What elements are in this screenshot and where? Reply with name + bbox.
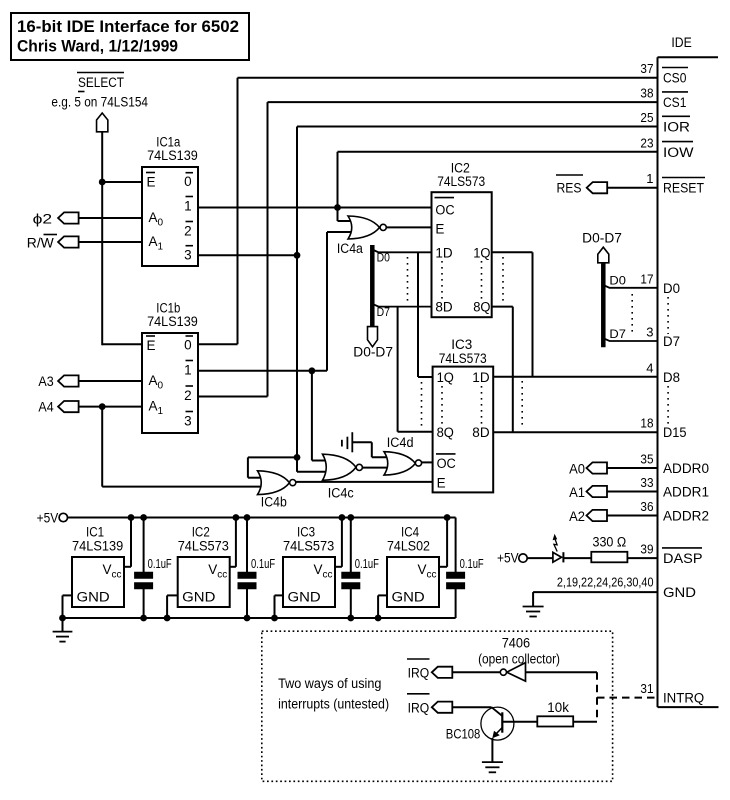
svg-text:D0-D7: D0-D7 (582, 231, 622, 246)
svg-text:16-bit IDE Interface for 6502: 16-bit IDE Interface for 6502 (17, 17, 239, 36)
bus entry D0 right (603, 285, 657, 288)
dotted bus hint IC3 left (421, 382, 423, 427)
svg-text:D0: D0 (663, 281, 680, 296)
power IC4 GND wire (378, 594, 387, 596)
svg-text:SELECT: SELECT (78, 75, 124, 90)
nor gate IC4d (384, 452, 415, 475)
input R/W tag (58, 236, 79, 247)
svg-text:74LS139: 74LS139 (147, 314, 198, 329)
wire branch to IC1a E (102, 181, 142, 183)
svg-text:Two ways of using: Two ways of using (278, 676, 381, 691)
inverter U2 7406 (507, 663, 526, 682)
svg-text:GND: GND (663, 585, 696, 600)
power IC3 GND wire (275, 594, 284, 596)
svg-text:(open collector): (open collector) (478, 651, 560, 666)
wire IC1b-2 to CS1 (198, 396, 268, 398)
svg-text:+5V: +5V (497, 551, 519, 566)
input RES tag (587, 182, 608, 193)
svg-text:0.1uF: 0.1uF (148, 557, 172, 571)
svg-text:1Q: 1Q (437, 370, 454, 385)
svg-text:IC3: IC3 (297, 525, 315, 540)
svg-text:IDE: IDE (671, 35, 691, 50)
power ground rail (63, 617, 456, 619)
svg-text:IRQ: IRQ (408, 700, 430, 715)
bus arrow D0-D7 (up) (598, 247, 609, 263)
svg-text:IC1: IC1 (86, 525, 104, 540)
ground (BC108) (482, 761, 503, 763)
power IC2 box (178, 557, 230, 607)
svg-text:330 Ω: 330 Ω (593, 535, 627, 550)
IC1b box (142, 333, 198, 433)
wire A4 to IC1b A1 (79, 406, 142, 408)
svg-text:IC2: IC2 (192, 525, 210, 540)
IC4a output bubble (380, 224, 386, 230)
LED D1 (553, 552, 562, 562)
svg-text:OC: OC (435, 203, 454, 218)
svg-text:4: 4 (646, 360, 653, 375)
svg-text:IC4c: IC4c (328, 486, 354, 501)
svg-text:74LS573: 74LS573 (439, 351, 487, 366)
power IC1 GND wire (63, 594, 73, 596)
svg-text:E: E (437, 475, 446, 490)
svg-text:D7: D7 (377, 305, 391, 319)
junction A4 branch (99, 403, 106, 410)
svg-text:1D: 1D (435, 245, 453, 260)
svg-text:0.1uF: 0.1uF (460, 557, 484, 571)
svg-text:A4: A4 (38, 400, 54, 415)
svg-text:D0: D0 (377, 251, 391, 265)
IC3 box (433, 367, 494, 493)
svg-text:1D: 1D (472, 370, 490, 385)
dotted bus hint IC2 inside Q (481, 261, 483, 299)
svg-text:0: 0 (184, 174, 192, 189)
wire IC1b-1 up to IC4a bottom input (326, 232, 328, 371)
bus D0-D7 (right) (601, 263, 606, 347)
svg-text:D15: D15 (663, 425, 687, 440)
power IC4 Vcc wire (439, 566, 447, 568)
power IC3 Vcc wire (335, 566, 342, 568)
dotted bus hint right bus (631, 294, 633, 336)
capacitor 0.1uF at IC3 (350, 518, 352, 573)
svg-text:R/W: R/W (27, 236, 54, 251)
wire dashed to INTRQ (596, 672, 598, 722)
IC4b output bubble (290, 480, 296, 486)
svg-text:33: 33 (640, 475, 653, 490)
wire IOW horizontal to connector (338, 151, 658, 153)
svg-text:74LS573: 74LS573 (178, 539, 229, 554)
svg-text:OC: OC (437, 456, 456, 471)
svg-text:74LS139: 74LS139 (147, 148, 198, 163)
svg-text:interrupts (untested): interrupts (untested) (278, 697, 389, 712)
dotted bus hint IC2 right (502, 257, 504, 303)
svg-text:0.1uF: 0.1uF (355, 557, 379, 571)
svg-text:GND: GND (77, 590, 110, 605)
ground (rotated) at IC4d input (341, 440, 343, 447)
wire IC4b out to IC3 E (296, 481, 433, 483)
IC4d output bubble (415, 460, 421, 466)
junction IC1a-3/IOR (294, 252, 301, 259)
wire A2 to ADDR (607, 515, 658, 517)
svg-text:DASP: DASP (663, 551, 703, 566)
svg-text:GND: GND (392, 590, 425, 605)
wire A1 to ADDR (607, 491, 658, 493)
svg-text:1: 1 (184, 199, 192, 214)
svg-text:IRQ: IRQ (408, 666, 430, 681)
svg-text:74LS573: 74LS573 (283, 539, 334, 554)
svg-text:0.1uF: 0.1uF (251, 557, 275, 571)
LED arrow (554, 540, 557, 552)
wire IC4a out to IC2 E (387, 226, 432, 228)
resistor R1 330 ohm (591, 552, 627, 563)
wire A3 to IC1b A0 (79, 380, 142, 382)
svg-text:IC3: IC3 (451, 337, 472, 352)
power IC2 Vcc wire (230, 566, 236, 568)
wire IC3 1Q to D0 line (418, 376, 433, 378)
svg-text:E: E (147, 338, 156, 353)
svg-text:18: 18 (640, 416, 653, 431)
wire IC3 8Q to D7 line (398, 431, 433, 433)
svg-text:Chris Ward, 1/12/1999: Chris Ward, 1/12/1999 (17, 37, 178, 56)
interrupt note box (dashed) (262, 631, 613, 781)
svg-text:37: 37 (640, 61, 653, 76)
wire to IC4a top input (338, 220, 354, 222)
svg-text:e.g. 5 on 74LS154: e.g. 5 on 74LS154 (51, 95, 148, 110)
power IC1 Vcc wire (124, 566, 131, 568)
svg-text:8D: 8D (435, 300, 453, 315)
svg-text:CS0: CS0 (663, 71, 686, 86)
svg-text:ADDR0: ADDR0 (663, 461, 709, 476)
wire IC1b-0 to CS0 (198, 343, 238, 345)
junction IOW/IC1a-1 (334, 204, 341, 211)
power IC2 GND wire (167, 594, 178, 596)
wire A0 to ADDR (607, 467, 658, 469)
title box (11, 13, 249, 60)
svg-text:A1: A1 (569, 485, 585, 500)
connector arrow SELECT (up) (97, 113, 108, 132)
svg-text:D0-D7: D0-D7 (353, 345, 393, 360)
junction SELECT/IC1a-E (99, 179, 106, 186)
svg-text:1Q: 1Q (473, 245, 490, 260)
svg-text:2,19,22,24,26,30,40: 2,19,22,24,26,30,40 (557, 575, 654, 590)
svg-text:10k: 10k (547, 700, 569, 715)
input A3 tag (58, 375, 79, 386)
svg-text:IC4: IC4 (401, 525, 420, 540)
svg-text:BC108: BC108 (446, 727, 481, 742)
power IC3 box (283, 557, 335, 607)
wire A4 down to IC4b input (101, 407, 103, 487)
ground (power rail) (62, 618, 64, 632)
svg-text:1: 1 (184, 363, 192, 378)
wire phi2 to IC1a A0 (79, 217, 142, 219)
svg-text:A3: A3 (38, 374, 53, 389)
wire R/W to IC1a A1 (79, 241, 142, 243)
svg-text:GND: GND (182, 590, 215, 605)
wire ground to IC4d top input (352, 441, 372, 443)
transistor Q1 BC108 (481, 707, 514, 740)
svg-text:39: 39 (640, 542, 653, 557)
svg-text:IOW: IOW (663, 145, 694, 160)
wire collector to resistor (502, 721, 537, 723)
svg-text:35: 35 (640, 452, 653, 467)
svg-text:D7: D7 (609, 327, 626, 341)
svg-text:36: 36 (640, 499, 653, 514)
svg-text:IC4b: IC4b (261, 495, 287, 510)
svg-text:IC4a: IC4a (337, 241, 363, 256)
wire D15 IC3 8D to connector (493, 431, 657, 433)
wire IOW vertical (337, 152, 339, 221)
wire IC4d out to IC3 OC (422, 461, 433, 463)
wire IOR vertical (296, 127, 298, 458)
power IC1 box (72, 557, 124, 607)
wire resistor to dashed node (573, 721, 597, 723)
wire IC4c out to IC4d input (363, 467, 389, 469)
wire LED to resistor (563, 557, 591, 559)
dotted bus hint IC3 inside Q (441, 386, 443, 426)
dotted bus hint IC3 inside D (481, 386, 483, 426)
svg-text:0: 0 (184, 337, 192, 352)
resistor R2 10k (537, 716, 573, 726)
svg-text:A2: A2 (569, 509, 585, 524)
wire +5V to LED (527, 557, 553, 559)
svg-text:RESET: RESET (663, 181, 704, 196)
capacitor 0.1uF at IC2 (246, 518, 248, 573)
wire resistor to DASP (627, 557, 657, 559)
IC2 box (432, 192, 492, 317)
svg-text:2: 2 (184, 223, 192, 238)
output IRQ tag (top) (432, 667, 453, 678)
svg-text:1: 1 (646, 171, 653, 186)
power rail +5V (68, 517, 456, 519)
svg-text:IC4d: IC4d (387, 435, 414, 450)
wire RES to RESET (607, 187, 657, 189)
svg-text:GND: GND (288, 590, 321, 605)
wire IC2 8Q to D15 line (492, 306, 513, 308)
svg-text:INTRQ: INTRQ (663, 691, 704, 706)
wire IOR horizontal to connector (297, 126, 658, 128)
wire IC1b-1 horizontal (198, 370, 327, 372)
nor gate IC4a (348, 216, 380, 239)
svg-text:CS1: CS1 (663, 95, 686, 110)
svg-text:D8: D8 (663, 370, 680, 385)
wire IC1a-3 to IOR line (198, 254, 297, 256)
svg-text:31: 31 (640, 681, 653, 696)
input A1 tag (587, 486, 608, 497)
input A0 tag (587, 462, 608, 473)
bus entry D0 (372, 250, 431, 253)
wire IC1a-1 to IC2 OC (198, 207, 432, 209)
output IRQ tag (bottom) (432, 702, 453, 713)
svg-text:2: 2 (184, 388, 192, 403)
dotted bus hint IC3 right (521, 381, 523, 428)
transistor emitter (494, 728, 503, 737)
svg-text:3: 3 (646, 325, 653, 340)
dotted bus hint IC2 left (407, 257, 409, 303)
svg-text:A0: A0 (569, 462, 585, 477)
svg-text:E: E (147, 175, 156, 190)
nor gate IC4b (258, 471, 290, 495)
wire IC1b-1 down to IC4c top input (311, 371, 313, 461)
IC4c output bubble (356, 464, 362, 470)
svg-text:ADDR1: ADDR1 (663, 485, 709, 500)
svg-text:17: 17 (640, 271, 653, 286)
wire emitter to ground (491, 738, 493, 762)
wire IOR branch to IC4c bottom input (296, 457, 298, 471)
IC1a box (142, 167, 198, 266)
dotted hint connector D8-D15 (667, 386, 669, 425)
svg-text:ADDR2: ADDR2 (663, 509, 709, 524)
svg-text:74LS02: 74LS02 (387, 539, 430, 554)
svg-text:D7: D7 (663, 334, 680, 349)
svg-text:D0: D0 (609, 274, 626, 288)
svg-text:+5V: +5V (37, 511, 59, 526)
wire D8 IC3 1D to connector (493, 376, 657, 378)
svg-text:8D: 8D (472, 425, 490, 440)
svg-text:IOR: IOR (663, 120, 690, 135)
svg-text:8Q: 8Q (473, 300, 490, 315)
svg-text:7406: 7406 (502, 636, 530, 651)
svg-text:RES: RES (557, 181, 582, 196)
svg-text:25: 25 (640, 110, 653, 125)
bus D0-D7 (left) (370, 245, 375, 327)
bus entry D7 right (603, 338, 657, 341)
capacitor 0.1uF at IC4 (455, 518, 457, 573)
input A4 tag (58, 401, 79, 412)
input phi2 tag (58, 212, 79, 223)
svg-text:74LS573: 74LS573 (437, 174, 485, 189)
wire IRQ to transistor base (452, 706, 491, 708)
power IC4 box (387, 557, 439, 607)
wire IOR branch to IC4b top input (248, 456, 297, 458)
svg-text:74LS139: 74LS139 (72, 539, 123, 554)
wire IRQ to inverter (452, 671, 500, 673)
svg-text:8Q: 8Q (437, 425, 454, 440)
svg-text:3: 3 (184, 248, 192, 263)
svg-text:3: 3 (184, 414, 192, 429)
nor gate IC4c (323, 454, 357, 480)
wire inverter to dashed node (526, 671, 598, 673)
input A2 tag (587, 510, 608, 521)
dotted bus hint IC2 inside D (441, 261, 443, 299)
svg-text:38: 38 (640, 86, 653, 101)
wire IC2 1Q to D8 line (492, 251, 533, 253)
dotted hint connector D0-D7 (667, 297, 669, 334)
junction IOR branch (294, 454, 301, 461)
IDE connector body (657, 57, 659, 707)
bus entry D7 (372, 304, 431, 307)
ground (DASP GND) (523, 606, 544, 608)
capacitor 0.1uF at IC1 (143, 518, 145, 573)
junction IC1b-1 branch (309, 367, 316, 374)
svg-text:ϕ2: ϕ2 (33, 212, 53, 227)
wire GND to ground (533, 591, 657, 593)
svg-text:23: 23 (640, 135, 653, 150)
bus arrow D0-D7 (down) (368, 327, 378, 347)
wire SELECT vertical to IC1b E (101, 132, 103, 345)
svg-text:E: E (435, 222, 444, 237)
